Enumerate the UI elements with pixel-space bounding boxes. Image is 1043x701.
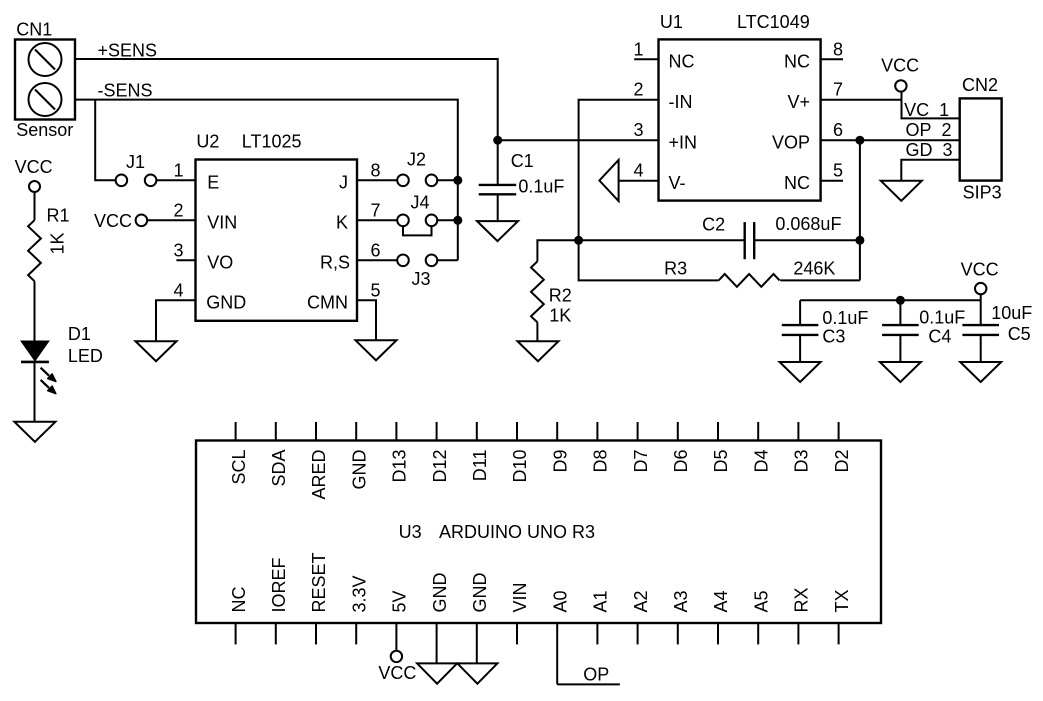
ground under U2 pin 5 — [356, 340, 397, 360]
junction node C4 tap — [896, 296, 905, 305]
svg-text:J2: J2 — [407, 150, 426, 170]
wire J3 to bus — [437, 259, 458, 261]
svg-text:C2: C2 — [702, 215, 725, 235]
svg-text:ARDUINO UNO R3: ARDUINO UNO R3 — [439, 522, 595, 542]
U3 reference designator — [399, 522, 422, 542]
net label VC 1 — [904, 100, 949, 120]
U3 bottom pin 5V — [390, 590, 410, 650]
U3 bottom pin NC — [229, 587, 249, 645]
U2 pin name VIN — [207, 213, 237, 233]
C4 reference designator — [928, 327, 951, 347]
connector CN2 label — [962, 75, 998, 95]
resistor R3 — [719, 274, 780, 287]
U1 pin number 5 — [833, 161, 843, 181]
jumper J4 pad 1 — [397, 215, 409, 227]
wire J2 to bus — [437, 179, 458, 181]
power VCC label at R1 — [15, 157, 53, 177]
U1 pin name V- — [669, 173, 686, 193]
ground under GD net — [881, 181, 922, 201]
svg-text:RX: RX — [792, 587, 812, 612]
svg-text:NC: NC — [669, 52, 695, 72]
wire VCC to decoupling bus — [980, 294, 982, 300]
svg-text:ARED: ARED — [309, 450, 329, 500]
R2 value 1K — [549, 306, 571, 326]
net label +SENS — [98, 41, 158, 61]
svg-text:VCC: VCC — [378, 663, 416, 683]
junction node J2 on -SENS bus — [453, 176, 462, 185]
U1 pin name NC top-left — [669, 52, 695, 72]
U2 pin name GND — [206, 293, 246, 313]
connector CN1 body — [15, 40, 75, 120]
U3 value ARDUINO UNO R3 — [439, 522, 595, 542]
U3 bottom pin VIN — [510, 582, 530, 644]
svg-text:GND: GND — [430, 573, 450, 613]
svg-text:8: 8 — [371, 160, 381, 180]
CN1 screw terminal 2 — [29, 83, 62, 116]
U2 pin number 4 — [173, 280, 183, 300]
svg-text:Sensor: Sensor — [16, 120, 73, 140]
capacitor C5 top lead — [980, 300, 982, 325]
svg-text:OP 2: OP 2 — [906, 120, 952, 140]
svg-text:3: 3 — [633, 120, 643, 140]
U1 value LTC1049 — [737, 12, 810, 32]
wire -SENS horizontal and vertical jumper bus — [75, 100, 458, 261]
svg-text:SDA: SDA — [269, 450, 289, 487]
svg-text:1K: 1K — [549, 306, 571, 326]
U1 pin name V+ — [787, 92, 810, 112]
svg-text:U2: U2 — [196, 132, 219, 152]
svg-text:NC: NC — [229, 587, 249, 613]
U3 top pin D6 — [671, 422, 691, 473]
svg-text:CMN: CMN — [307, 293, 348, 313]
power VCC terminal at C5 — [975, 283, 986, 294]
resistor R1 — [28, 220, 41, 281]
svg-text:A1: A1 — [591, 590, 611, 612]
R3 value 246K — [793, 259, 835, 279]
wire feedback left segment to C2 — [579, 239, 745, 241]
net label OP — [583, 665, 609, 685]
jumper J2 pad 2 — [426, 175, 438, 187]
C5 value 10uF — [991, 303, 1032, 323]
svg-text:R1: R1 — [47, 206, 70, 226]
U1 pin 7 wire V+ — [821, 99, 902, 101]
U3 top pin D5 — [711, 422, 731, 473]
svg-text:1: 1 — [173, 160, 183, 180]
U1 pin 4 wire — [619, 180, 659, 182]
U1 reference designator — [660, 12, 683, 32]
U3 bottom pin GND — [430, 573, 450, 664]
net label -SENS — [98, 81, 153, 101]
U1 pin number 6 — [833, 120, 843, 140]
svg-text:-SENS: -SENS — [98, 81, 153, 101]
U2 value LT1025 — [242, 132, 302, 152]
svg-text:+IN: +IN — [669, 132, 698, 152]
wire feedback right segment from C2 — [754, 239, 860, 241]
U1 pin 6 wire VOP to CN2 — [821, 139, 960, 141]
svg-text:5V: 5V — [390, 590, 410, 612]
svg-text:0.1uF: 0.1uF — [518, 177, 564, 197]
svg-text:A4: A4 — [711, 590, 731, 612]
svg-text:E: E — [207, 173, 219, 193]
wire VCC to R1 — [34, 192, 36, 220]
U2 pin number 5 — [371, 280, 381, 300]
jumper J3 label — [412, 269, 431, 289]
svg-text:GD 3: GD 3 — [906, 140, 953, 160]
U3 top pin D4 — [751, 422, 771, 473]
C4 value 0.1uF — [919, 308, 965, 328]
C2 value 0.068uF — [775, 214, 841, 234]
U2 pin 3 stub — [176, 259, 195, 261]
svg-text:246K: 246K — [793, 259, 835, 279]
C1 reference designator — [511, 151, 534, 171]
svg-text:3: 3 — [173, 240, 183, 260]
U3 bottom pin A5 — [751, 590, 771, 644]
U1 pin number 8 — [833, 39, 843, 59]
wire +IN from junction to U1 pin 3 — [498, 139, 659, 141]
capacitor C1 bottom lead — [497, 194, 499, 221]
wire J4 to bus — [437, 219, 458, 221]
svg-text:3.3V: 3.3V — [349, 575, 369, 612]
ground under U3 GND pin 2 — [457, 663, 497, 683]
U3 bottom pin A4 — [711, 590, 731, 644]
svg-text:2: 2 — [173, 200, 183, 220]
ground under C5 — [960, 362, 1001, 382]
svg-text:V-: V- — [669, 173, 686, 193]
svg-text:A2: A2 — [631, 590, 651, 612]
svg-text:VO: VO — [207, 253, 233, 273]
U3 top pin D13 — [390, 422, 410, 483]
U1 pin number 7 — [833, 80, 843, 100]
svg-text:D9: D9 — [550, 450, 570, 473]
U2 pin number 6 — [371, 240, 381, 260]
op-amp U1 body — [659, 39, 821, 200]
U2 pin 4 wire to ground — [156, 300, 196, 341]
svg-text:1: 1 — [633, 39, 643, 59]
jumper J3 pad 1 — [397, 254, 409, 266]
U3 bottom pin IOREF — [269, 557, 289, 644]
U1 pin name -IN — [669, 92, 693, 112]
connector CN1 label — [16, 19, 52, 39]
svg-text:A3: A3 — [671, 590, 691, 612]
svg-text:C1: C1 — [511, 151, 534, 171]
capacitor C4 bottom lead — [899, 335, 901, 362]
svg-text:C4: C4 — [928, 327, 951, 347]
C1 value 0.1uF — [518, 177, 564, 197]
jumper J4 label — [411, 193, 430, 213]
svg-text:OP: OP — [583, 665, 609, 685]
wire R1 to D1 — [34, 281, 36, 341]
wire +SENS horizontal and drop to C1 junction — [75, 59, 498, 140]
svg-text:D8: D8 — [591, 450, 611, 473]
U1 pin number 4 — [633, 161, 643, 181]
svg-text:IOREF: IOREF — [269, 557, 289, 612]
U3 bottom pin TX — [832, 589, 852, 644]
U1 pin number 2 — [633, 80, 643, 100]
svg-text:1K: 1K — [48, 232, 68, 254]
svg-text:SIP3: SIP3 — [963, 183, 1002, 203]
svg-text:7: 7 — [371, 200, 381, 220]
svg-text:D1: D1 — [68, 324, 91, 344]
ground under U2 pin 4 — [136, 341, 177, 361]
svg-text:R3: R3 — [664, 259, 687, 279]
power VCC label at 5V pin — [378, 663, 416, 683]
junction node +SENS/C1/+IN — [493, 136, 502, 145]
U1 pin 1 stub — [634, 58, 658, 60]
wire decoupling bus — [800, 299, 981, 301]
power VCC terminal at 5V pin — [391, 651, 402, 662]
LED D1 triangle — [21, 341, 49, 361]
svg-text:TX: TX — [832, 589, 852, 612]
U2 pin number 2 — [173, 200, 183, 220]
wire D1 to ground — [34, 363, 36, 422]
svg-text:VCC: VCC — [961, 260, 999, 280]
power VCC terminal at U2 pin 2 — [136, 215, 148, 227]
svg-text:VCC: VCC — [94, 211, 132, 231]
U1 pin name VOP — [772, 132, 810, 152]
U2 reference designator — [196, 132, 219, 152]
svg-text:K: K — [336, 213, 348, 233]
U2 pin number 8 — [371, 160, 381, 180]
svg-text:D5: D5 — [711, 450, 731, 473]
capacitor C1 top lead — [497, 140, 499, 185]
U2 pin 6 wire to J3 — [357, 259, 397, 261]
wire VOP feedback vertical — [859, 140, 861, 280]
U1 pin 2 wire -IN with feedback drop — [579, 100, 659, 241]
svg-text:D11: D11 — [470, 450, 490, 482]
connector CN2 body — [960, 98, 1002, 180]
svg-text:5: 5 — [371, 280, 381, 300]
U3 bottom pin A3 — [671, 590, 691, 644]
LED D1 cathode bar — [21, 361, 49, 364]
U2 pin 5 wire to ground — [357, 300, 376, 340]
svg-text:7: 7 — [833, 80, 843, 100]
U3 top pin D7 — [631, 422, 651, 473]
U3 top pin SCL — [229, 422, 249, 485]
svg-text:U1: U1 — [660, 12, 683, 32]
U3 top pin D2 — [832, 422, 852, 473]
U2 pin 8 wire to J2 — [357, 179, 397, 181]
svg-text:VC 1: VC 1 — [904, 100, 949, 120]
U3 top pin D9 — [550, 422, 570, 473]
svg-text:J4: J4 — [411, 193, 430, 213]
svg-text:U3: U3 — [399, 522, 422, 542]
svg-text:C5: C5 — [1008, 324, 1031, 344]
junction node feedback left — [574, 236, 583, 245]
svg-text:R2: R2 — [549, 286, 572, 306]
svg-text:CN2: CN2 — [962, 75, 998, 95]
wire feedback to R2 — [537, 240, 578, 261]
svg-text:D6: D6 — [671, 450, 691, 473]
U3 top pin SDA — [269, 422, 289, 487]
CN2 value SIP3 — [963, 183, 1002, 203]
svg-text:+SENS: +SENS — [98, 41, 158, 61]
CN1 Sensor label — [16, 120, 73, 140]
svg-text:LTC1049: LTC1049 — [737, 12, 810, 32]
svg-text:C3: C3 — [822, 327, 845, 347]
power VCC label at C5 — [961, 260, 999, 280]
U1 pin name NC bottom-right — [784, 173, 810, 193]
R3 reference designator — [664, 259, 687, 279]
power VCC terminal at U1 pin 7 — [895, 80, 906, 91]
U1 pin name NC top-right — [784, 52, 810, 72]
svg-text:D4: D4 — [751, 450, 771, 473]
capacitor C3 plates — [782, 325, 819, 335]
wire A0 to OP net — [557, 683, 620, 685]
svg-text:VCC: VCC — [881, 56, 919, 76]
svg-text:4: 4 — [633, 161, 643, 181]
svg-text:10uF: 10uF — [991, 303, 1032, 323]
U2 pin name VO — [207, 253, 233, 273]
LED D1 light arrows — [41, 368, 56, 394]
U3 top pin ARED — [309, 422, 329, 500]
svg-text:NC: NC — [784, 52, 810, 72]
svg-text:-IN: -IN — [669, 92, 693, 112]
jumper J3 pad 2 — [426, 254, 438, 266]
resistor R2 — [531, 261, 544, 322]
svg-text:SCL: SCL — [229, 450, 249, 485]
svg-text:J1: J1 — [126, 152, 145, 172]
power VCC terminal at R1 — [29, 181, 40, 192]
IC U3 Arduino body — [196, 441, 881, 624]
U2 pin 7 wire to J4 — [357, 219, 397, 221]
U2 pin name J — [339, 173, 348, 193]
U3 top pin D3 — [792, 422, 812, 473]
jumper J2 label — [407, 150, 426, 170]
U2 pin name R,S — [320, 253, 350, 273]
U3 bottom pin RESET — [309, 552, 329, 644]
op-amp U2 body — [196, 160, 358, 321]
U1 pin number 3 — [633, 120, 643, 140]
C2 reference designator — [702, 215, 725, 235]
svg-text:0.1uF: 0.1uF — [919, 308, 965, 328]
capacitor C4 plates — [882, 325, 919, 335]
net label GD 3 — [906, 140, 953, 160]
U1 pin 5 stub — [821, 180, 843, 182]
ground under U3 GND pin 1 — [417, 663, 457, 683]
svg-text:6: 6 — [833, 120, 843, 140]
U1 pin 8 stub — [821, 58, 843, 60]
junction node VOP — [855, 136, 864, 145]
D1 value LED — [68, 346, 103, 366]
svg-text:NC: NC — [784, 173, 810, 193]
ground under C1 — [477, 221, 518, 241]
capacitor C3 top lead — [799, 300, 801, 325]
wire R2 to ground — [536, 322, 538, 341]
svg-text:8: 8 — [833, 39, 843, 59]
power VCC label at U2 pin 2 — [94, 211, 132, 231]
U3 bottom pin A1 — [591, 590, 611, 644]
U3 top pin D12 — [430, 422, 450, 483]
U3 bottom pin A0 — [550, 590, 570, 684]
ground under D1 — [14, 422, 55, 442]
capacitor C3 bottom lead — [799, 335, 801, 362]
capacitor C1 plates — [479, 185, 517, 194]
svg-text:A0: A0 — [550, 590, 570, 612]
capacitor C2 plates — [745, 222, 755, 259]
R1 value 1K rotated — [48, 232, 68, 254]
U1 pin name +IN — [669, 132, 698, 152]
U3 bottom pin RX — [792, 587, 812, 644]
jumper J1 label — [126, 152, 145, 172]
CN1 screw terminal 1 — [29, 43, 62, 76]
svg-text:J: J — [339, 173, 348, 193]
U2 pin number 7 — [371, 200, 381, 220]
capacitor C5 bottom lead — [980, 335, 982, 362]
D1 reference designator — [68, 324, 91, 344]
U2 pin number 1 — [173, 160, 183, 180]
jumper J4 pad 2 — [426, 215, 438, 227]
svg-text:0.1uF: 0.1uF — [822, 308, 868, 328]
wire R3 right lead — [780, 279, 860, 281]
U2 pin name K — [336, 213, 348, 233]
ground under C4 — [880, 362, 921, 382]
wire J1 to U2 pin 1 — [156, 179, 195, 181]
power VCC label at U1 pin 7 — [881, 56, 919, 76]
C5 reference designator — [1008, 324, 1031, 344]
svg-text:LT1025: LT1025 — [242, 132, 302, 152]
svg-text:6: 6 — [371, 240, 381, 260]
capacitor C4 top lead — [899, 300, 901, 325]
svg-text:VIN: VIN — [510, 582, 530, 612]
svg-text:VIN: VIN — [207, 213, 237, 233]
svg-text:J3: J3 — [412, 269, 431, 289]
svg-text:0.068uF: 0.068uF — [775, 214, 841, 234]
C3 reference designator — [822, 327, 845, 347]
jumper J1 pad 2 — [145, 175, 157, 187]
svg-text:GND: GND — [206, 293, 246, 313]
svg-text:D10: D10 — [510, 450, 530, 483]
svg-text:LED: LED — [68, 346, 103, 366]
svg-text:4: 4 — [173, 280, 183, 300]
U2 pin name CMN — [307, 293, 348, 313]
jumper J1 pad 1 — [116, 175, 128, 187]
svg-text:GND: GND — [470, 573, 490, 613]
R1 reference designator — [47, 206, 70, 226]
svg-text:D2: D2 — [832, 450, 852, 473]
U3 bottom pin A2 — [631, 590, 651, 644]
net label OP 2 — [906, 120, 952, 140]
U2 pin number 3 — [173, 240, 183, 260]
V- arrow symbol — [599, 160, 618, 201]
svg-text:RESET: RESET — [309, 552, 329, 612]
U3 top pin D11 — [470, 422, 490, 481]
svg-text:5: 5 — [833, 161, 843, 181]
C3 value 0.1uF — [822, 308, 868, 328]
wire VCC to U2 pin 2 — [147, 219, 195, 221]
wire R3 left lead — [579, 240, 719, 280]
ground under C3 — [780, 362, 821, 382]
U3 top pin GND — [349, 422, 369, 490]
wire GD to ground — [901, 160, 959, 181]
svg-text:2: 2 — [633, 80, 643, 100]
U1 pin number 1 — [633, 39, 643, 59]
U3 top pin D10 — [510, 422, 530, 483]
svg-text:VCC: VCC — [15, 157, 53, 177]
wire -SENS drop to J1 — [95, 100, 115, 181]
U3 top pin D8 — [591, 422, 611, 473]
U3 bottom pin 3.3V — [349, 575, 369, 644]
svg-text:V+: V+ — [787, 92, 810, 112]
svg-text:GND: GND — [349, 450, 369, 490]
svg-text:R,S: R,S — [320, 253, 350, 273]
svg-text:A5: A5 — [751, 590, 771, 612]
svg-text:D13: D13 — [390, 450, 410, 483]
jumper J2 pad 1 — [397, 175, 409, 187]
svg-text:D7: D7 — [631, 450, 651, 473]
svg-text:D3: D3 — [792, 450, 812, 473]
svg-text:VOP: VOP — [772, 132, 810, 152]
R2 reference designator — [549, 286, 572, 306]
